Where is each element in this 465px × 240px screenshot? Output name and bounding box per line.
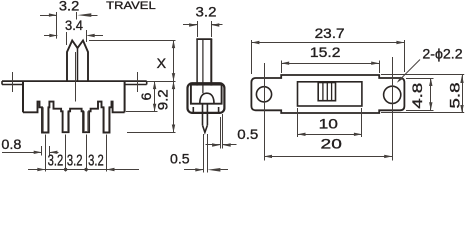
svg-text:20: 20 — [321, 137, 342, 153]
svg-text:2-ϕ2.2: 2-ϕ2.2 — [422, 46, 462, 62]
svg-text:0.5: 0.5 — [170, 151, 190, 167]
svg-text:3.2: 3.2 — [88, 153, 104, 170]
svg-text:15.2: 15.2 — [310, 45, 341, 61]
svg-text:0.8: 0.8 — [1, 137, 21, 153]
svg-text:4.8: 4.8 — [410, 83, 426, 109]
svg-text:3.2: 3.2 — [59, 0, 80, 14]
svg-text:TRAVEL: TRAVEL — [106, 0, 156, 12]
svg-text:0.5: 0.5 — [237, 127, 258, 143]
svg-text:3.4: 3.4 — [65, 18, 83, 34]
svg-text:3.2: 3.2 — [67, 153, 83, 170]
svg-text:3.2: 3.2 — [196, 4, 217, 20]
svg-text:10: 10 — [319, 116, 338, 132]
svg-text:6: 6 — [139, 92, 155, 100]
svg-text:X: X — [157, 56, 167, 72]
svg-text:3.2: 3.2 — [48, 153, 64, 170]
svg-text:23.7: 23.7 — [315, 26, 345, 42]
svg-text:9.2: 9.2 — [156, 89, 172, 110]
svg-text:5.8: 5.8 — [447, 82, 463, 108]
